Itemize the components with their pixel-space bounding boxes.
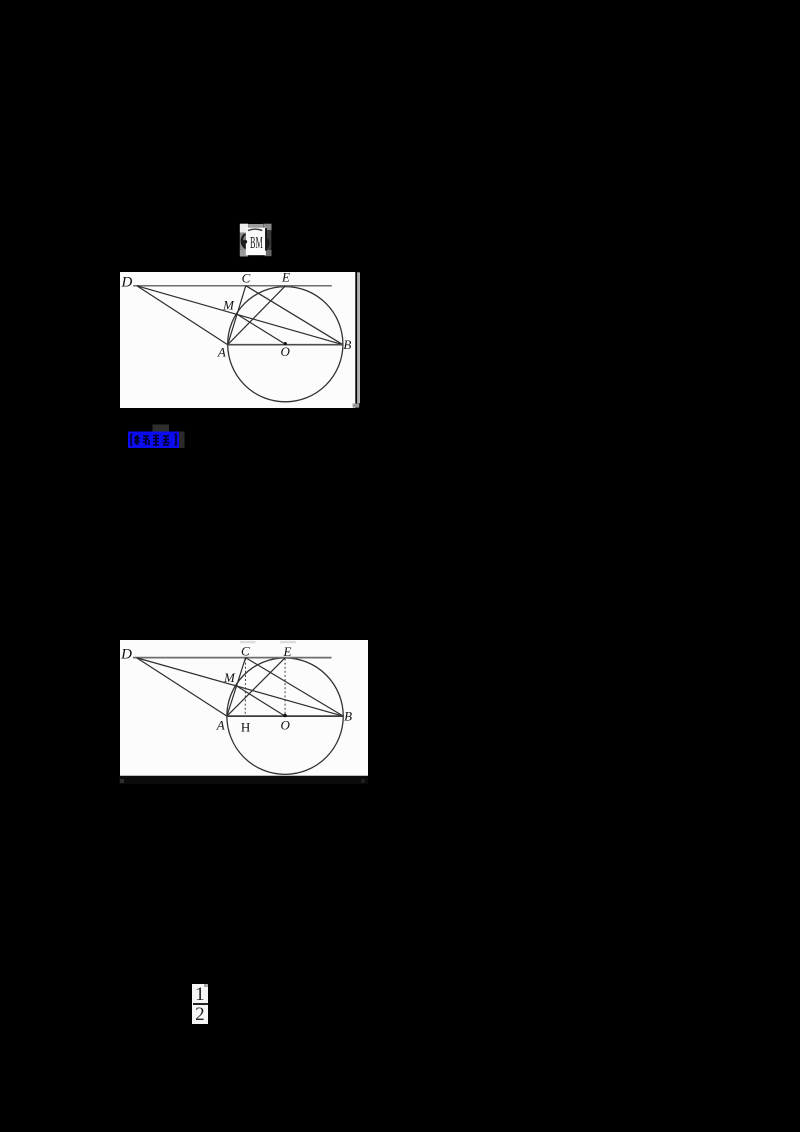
- white panel: [120, 272, 355, 408]
- svg-text:O: O: [280, 343, 290, 358]
- ghost tab over C: [240, 641, 255, 643]
- svg-text:A: A: [217, 344, 226, 359]
- segment AE: [227, 285, 285, 344]
- center dot O: [283, 714, 286, 717]
- dashed EO: [284, 658, 286, 714]
- diameter AB: [227, 343, 342, 345]
- segment CB: [245, 657, 343, 716]
- svg-text:C: C: [241, 643, 250, 658]
- svg-text:E: E: [282, 644, 291, 659]
- fraction 1/2: [192, 984, 208, 1024]
- left glyph fragment: [241, 234, 246, 249]
- formula chip: arc over BM: [239, 223, 273, 257]
- svg-text:O: O: [280, 717, 290, 732]
- svg-text:C: C: [241, 272, 250, 285]
- right glyph fragment: [267, 238, 269, 248]
- circle O1: [227, 286, 342, 401]
- scrollbar grey bar: [357, 272, 360, 403]
- svg-text:D: D: [120, 646, 132, 662]
- segment DA: [136, 658, 226, 716]
- circle O2: [227, 658, 343, 774]
- segment DB: [136, 658, 343, 716]
- segment DB: [136, 285, 342, 344]
- svg-text:M: M: [223, 670, 236, 685]
- svg-text:D: D: [120, 274, 132, 290]
- center dot O: [283, 342, 286, 345]
- ghost tab over E: [280, 641, 296, 643]
- cursor bar: [265, 228, 267, 251]
- segment CB: [245, 285, 342, 344]
- segment MO: [237, 314, 285, 344]
- segment CA: [227, 285, 245, 344]
- segment DA: [136, 285, 227, 344]
- svg-text:BM: BM: [250, 233, 263, 252]
- svg-text:H: H: [241, 719, 250, 734]
- tangent line DCE: [133, 284, 332, 286]
- diameter AB: [227, 715, 343, 717]
- scrollbar grey square: [352, 403, 359, 407]
- segment MO: [236, 686, 284, 716]
- dashed CH: [244, 658, 246, 715]
- white panel: [120, 640, 368, 776]
- svg-text:B: B: [343, 336, 351, 351]
- svg-text:B: B: [344, 708, 352, 723]
- svg-text:M: M: [222, 297, 235, 312]
- arc accent over BM: [248, 229, 262, 230]
- scrollbar dark line: [355, 272, 356, 403]
- segment AE: [227, 658, 285, 716]
- blue highlighted label: [128, 424, 188, 449]
- svg-text:A: A: [215, 717, 224, 732]
- svg-text:E: E: [281, 272, 290, 284]
- tangent line DCE: [133, 656, 332, 658]
- faint strip under figure 2: [119, 776, 368, 784]
- segment CA: [227, 657, 246, 716]
- figure 2: [120, 640, 368, 776]
- figure 1: [120, 272, 361, 408]
